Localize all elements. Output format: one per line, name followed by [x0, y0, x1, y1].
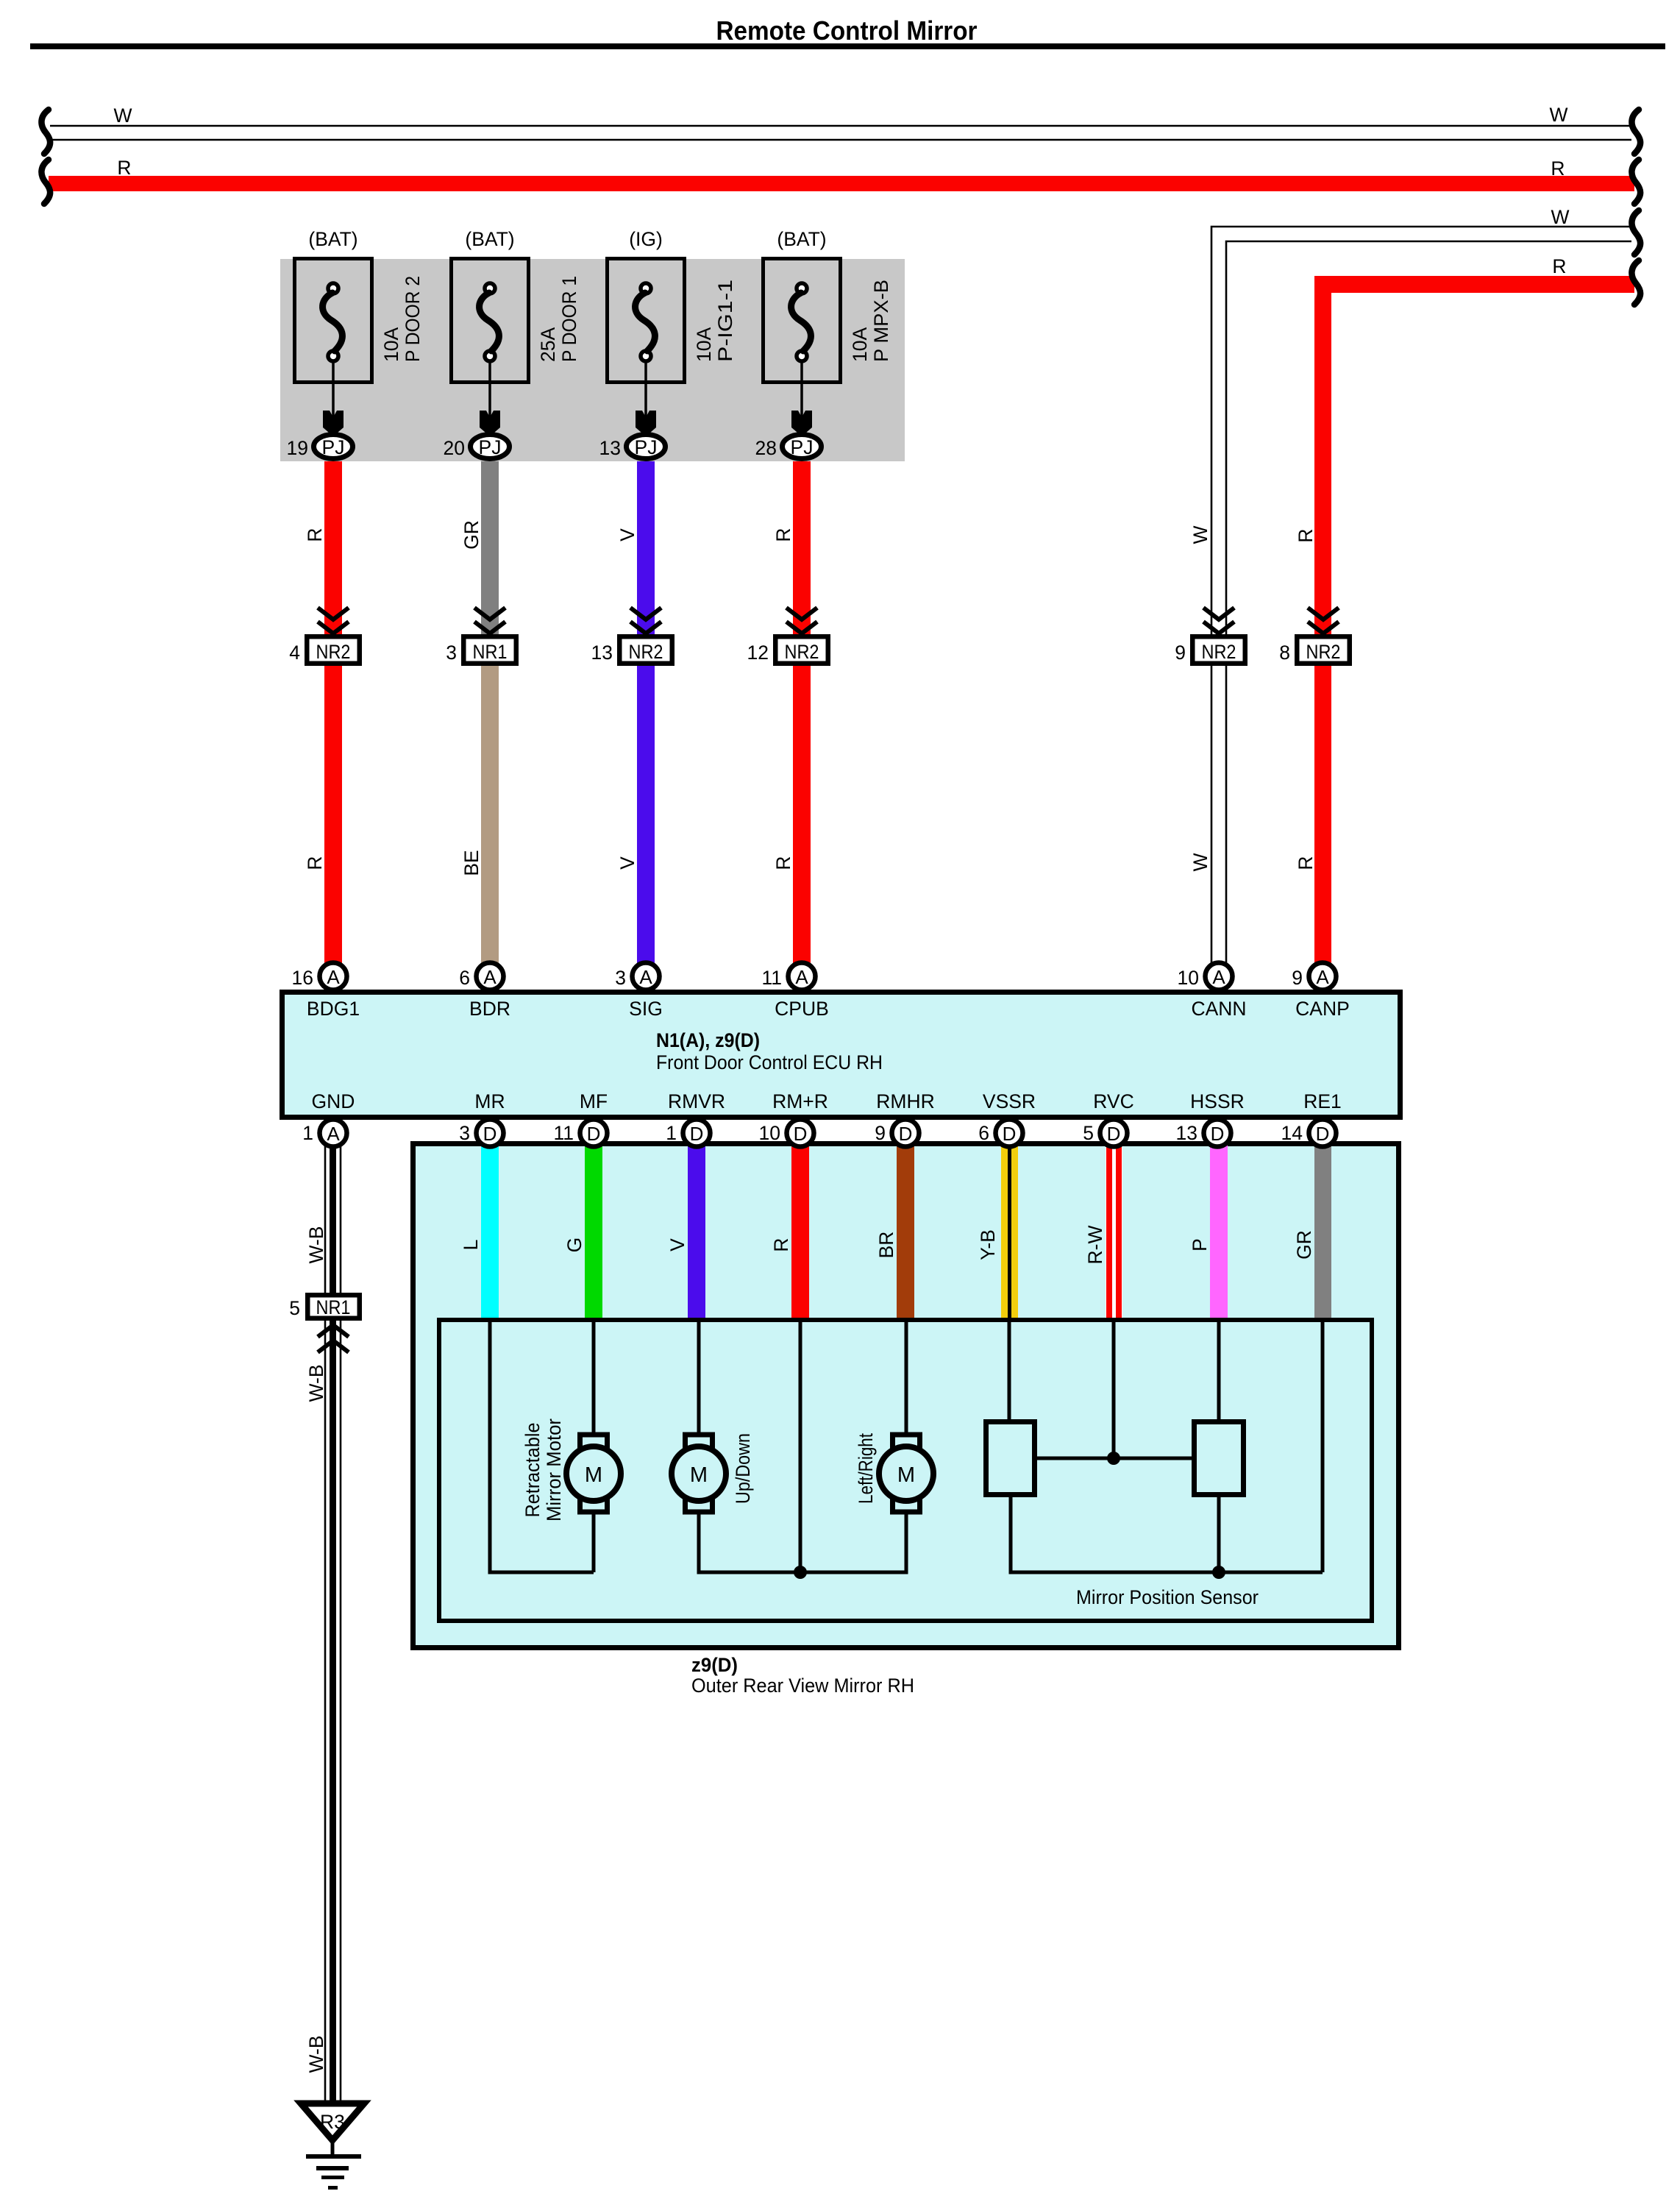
svg-text:NR2: NR2 [1306, 641, 1341, 663]
svg-text:W: W [1189, 853, 1211, 871]
junction dot motor bus [794, 1566, 807, 1579]
wire GR [1314, 1145, 1331, 1320]
ground hatch [306, 2154, 361, 2190]
wire V to updown motor top [697, 1320, 701, 1437]
wire between sensors [1037, 1457, 1192, 1460]
wire L [481, 1145, 499, 1320]
svg-text:10A: 10A [849, 327, 871, 362]
chevron arrow into NR1 5 [318, 1325, 349, 1352]
svg-text:P DOOR 1: P DOOR 1 [558, 276, 580, 362]
svg-text:10A: 10A [380, 327, 402, 362]
svg-text:5: 5 [1083, 1122, 1094, 1144]
svg-text:NR2: NR2 [1202, 641, 1236, 663]
svg-text:W: W [113, 104, 132, 127]
svg-text:14: 14 [1281, 1122, 1303, 1144]
wire Y-B to sensor1 [1008, 1320, 1011, 1419]
wire R to CPUB [793, 661, 811, 965]
svg-text:W: W [1549, 104, 1567, 126]
svg-text:6: 6 [459, 967, 470, 989]
svg-text:D: D [1003, 1123, 1017, 1145]
svg-text:3: 3 [459, 1122, 470, 1144]
wire W-B from GND [325, 1137, 341, 1293]
svg-text:1: 1 [302, 1122, 313, 1144]
svg-text:8: 8 [1279, 642, 1290, 664]
pin 11 (D) [553, 1120, 607, 1147]
wire R [791, 1145, 809, 1320]
svg-text:3: 3 [615, 967, 626, 989]
svg-text:W-B: W-B [305, 2035, 327, 2073]
svg-text:N1(A), z9(D): N1(A), z9(D) [656, 1029, 760, 1051]
svg-text:RMHR: RMHR [876, 1090, 935, 1112]
svg-text:BE: BE [460, 850, 483, 876]
svg-text:9: 9 [875, 1122, 886, 1144]
connector NR2 pin 9 [1175, 636, 1245, 664]
svg-text:D: D [899, 1123, 913, 1145]
brace left W bus [41, 110, 50, 154]
junction dot sensor center [1107, 1452, 1120, 1465]
svg-text:R: R [1551, 157, 1565, 180]
fuse P DOOR 1 [452, 228, 581, 383]
svg-text:NR2: NR2 [785, 641, 819, 663]
svg-text:Outer Rear View Mirror RH: Outer Rear View Mirror RH [691, 1675, 914, 1697]
arrow from fuse P MPX-B to PJ [791, 361, 812, 436]
connector PJ pin 20 [444, 435, 510, 460]
wire sensor bottom bus [1011, 1497, 1323, 1572]
pin 1 (A) [302, 1120, 346, 1147]
chevron arrow into NR1 3 [474, 608, 505, 633]
svg-text:G: G [563, 1238, 585, 1253]
wire BR to leftright motor top [905, 1320, 908, 1437]
svg-text:R: R [304, 856, 326, 870]
svg-text:GR: GR [1293, 1230, 1315, 1260]
pin 1 (D) [666, 1120, 710, 1147]
wire V from PJ13 [637, 461, 655, 637]
svg-text:R: R [772, 528, 794, 542]
leftright motor M3 [879, 1435, 933, 1512]
wire R from PJ28 [793, 461, 811, 637]
wire V [688, 1145, 705, 1320]
svg-text:M: M [690, 1463, 708, 1487]
wire updown motor bottom bus [699, 1510, 906, 1572]
svg-text:R: R [1295, 856, 1317, 870]
svg-text:D: D [1316, 1123, 1330, 1145]
svg-text:GND: GND [312, 1090, 355, 1112]
sensor element 1 [986, 1422, 1035, 1495]
svg-text:Remote Control Mirror: Remote Control Mirror [716, 15, 978, 46]
svg-text:D: D [483, 1123, 497, 1145]
pin 6 (D) [978, 1120, 1022, 1147]
svg-text:W-B: W-B [305, 1226, 327, 1263]
connector PJ pin 19 [287, 435, 353, 460]
svg-text:A: A [327, 1123, 340, 1145]
wire BR [897, 1145, 914, 1320]
connector NR2 pin 13 [591, 636, 672, 664]
connector NR2 pin 4 [289, 636, 360, 664]
svg-text:1: 1 [666, 1122, 677, 1144]
svg-text:Mirror Motor: Mirror Motor [543, 1418, 565, 1522]
svg-text:9: 9 [1175, 642, 1186, 664]
arrow from fuse P DOOR 1 to PJ [480, 361, 500, 436]
mirror internal box [439, 1320, 1372, 1621]
arrow from fuse P-IG1-1 to PJ [636, 361, 656, 436]
connector NR1 pin 3 [446, 636, 516, 664]
svg-text:RMVR: RMVR [668, 1090, 725, 1112]
sensor element 2 [1195, 1422, 1244, 1495]
svg-text:HSSR: HSSR [1190, 1090, 1245, 1112]
fuse P MPX-B [764, 228, 893, 383]
svg-text:CPUB: CPUB [775, 998, 829, 1020]
pin 10 (D) [759, 1120, 814, 1147]
pin 10 (A) [1178, 963, 1233, 990]
svg-text:BDR: BDR [469, 998, 510, 1020]
svg-text:20: 20 [444, 437, 465, 459]
svg-text:V: V [666, 1238, 688, 1251]
chevron arrow into NR2 4 [318, 608, 349, 633]
svg-text:R: R [1295, 528, 1317, 542]
svg-text:28: 28 [755, 437, 777, 459]
svg-text:W: W [1551, 206, 1569, 228]
chevron arrow into NR2 13 [630, 608, 661, 633]
svg-text:RE1: RE1 [1303, 1090, 1342, 1112]
svg-text:Y-B: Y-B [977, 1229, 999, 1260]
svg-text:BR: BR [875, 1232, 897, 1259]
wire GR from PJ20 [481, 461, 499, 637]
svg-text:NR2: NR2 [629, 641, 663, 663]
svg-text:W-B: W-B [305, 1364, 327, 1402]
wire R to CANP [1314, 276, 1634, 293]
svg-text:PJ: PJ [322, 436, 345, 458]
pin 5 (D) [1083, 1120, 1127, 1147]
svg-text:9: 9 [1292, 967, 1303, 989]
arrow from fuse P DOOR 2 to PJ [323, 361, 344, 436]
svg-text:M: M [585, 1463, 602, 1487]
svg-text:12: 12 [747, 642, 769, 664]
svg-text:4: 4 [289, 642, 300, 664]
wire P [1210, 1145, 1228, 1320]
wire P to sensor2 [1217, 1320, 1221, 1419]
svg-text:D: D [587, 1123, 601, 1145]
svg-text:VSSR: VSSR [983, 1090, 1036, 1112]
updown motor M2 [672, 1435, 726, 1512]
wire V to SIG [637, 661, 655, 965]
svg-text:11: 11 [761, 967, 782, 989]
connector PJ pin 28 [755, 435, 822, 460]
svg-text:Mirror Position Sensor: Mirror Position Sensor [1076, 1586, 1259, 1608]
ECU N1(A) z9(D) Front Door Control ECU RH [282, 993, 1400, 1118]
ground stem [331, 2140, 335, 2155]
svg-text:Front Door Control ECU RH: Front Door Control ECU RH [656, 1051, 883, 1073]
connector NR1 pin 5 [289, 1295, 360, 1319]
svg-text:A: A [327, 966, 340, 988]
svg-text:6: 6 [978, 1122, 989, 1144]
wire R to motor bus [799, 1320, 802, 1572]
svg-text:(IG): (IG) [629, 228, 663, 250]
retractable mirror motor M1 [566, 1435, 621, 1512]
svg-text:PJ: PJ [479, 436, 502, 458]
svg-text:Left/Right: Left/Right [855, 1432, 877, 1504]
svg-text:(BAT): (BAT) [777, 228, 826, 250]
brace right R2 [1631, 260, 1640, 305]
wire W bus top [50, 126, 1631, 140]
svg-text:L: L [460, 1240, 482, 1251]
wire Y-B [1001, 1145, 1018, 1320]
wire BE to BDR [481, 661, 499, 965]
svg-text:A: A [639, 966, 652, 988]
mirror z9(D) Outer Rear View Mirror RH box [413, 1144, 1399, 1648]
svg-text:CANP: CANP [1295, 998, 1350, 1020]
svg-text:RVC: RVC [1093, 1090, 1133, 1112]
svg-text:A: A [1212, 966, 1225, 988]
brace left R bus [41, 160, 50, 204]
svg-text:M: M [897, 1463, 915, 1487]
pin 3 (A) [615, 963, 659, 990]
title rule [30, 43, 1665, 49]
wire R bus top [49, 176, 1634, 191]
wire G to retract motor top [592, 1320, 596, 1437]
wire W-B to ground [325, 1318, 341, 2102]
pin 3 (D) [459, 1120, 503, 1147]
svg-text:D: D [690, 1123, 704, 1145]
svg-text:5: 5 [289, 1297, 300, 1319]
pin 9 (A) [1292, 963, 1336, 990]
svg-text:R3: R3 [320, 2111, 345, 2133]
svg-text:V: V [616, 528, 638, 542]
wire R to BDG1 [324, 661, 342, 965]
fuse P-IG1-1 [608, 228, 737, 383]
svg-text:MF: MF [580, 1090, 608, 1112]
svg-text:V: V [616, 856, 638, 870]
svg-text:25A: 25A [537, 327, 559, 362]
svg-text:RM+R: RM+R [772, 1090, 828, 1112]
svg-text:PJ: PJ [635, 436, 658, 458]
chevron arrow into NR2 9 [1203, 608, 1234, 633]
connector NR2 pin 8 [1279, 636, 1350, 664]
svg-text:R: R [770, 1238, 792, 1251]
svg-text:13: 13 [1176, 1122, 1197, 1144]
svg-text:A: A [1316, 966, 1329, 988]
svg-text:R: R [1552, 255, 1566, 277]
pin 13 (D) [1176, 1120, 1231, 1147]
svg-text:10: 10 [759, 1122, 780, 1144]
svg-text:Retractable: Retractable [522, 1423, 544, 1518]
svg-text:P MPX-B: P MPX-B [870, 280, 892, 362]
junction dot sensor bus [1212, 1566, 1225, 1579]
svg-text:R: R [117, 157, 131, 179]
svg-text:z9(D): z9(D) [691, 1654, 738, 1676]
svg-text:D: D [1107, 1123, 1121, 1145]
pin 9 (D) [875, 1120, 919, 1147]
pin 11 (A) [761, 963, 815, 990]
svg-text:P: P [1189, 1238, 1211, 1251]
connector NR2 pin 12 [747, 636, 828, 664]
pin 16 (A) [292, 963, 347, 990]
wire sensor2 bottom [1217, 1497, 1221, 1572]
svg-text:MR: MR [474, 1090, 505, 1112]
wire R from PJ19 [324, 461, 342, 637]
svg-text:W: W [1189, 525, 1211, 544]
junction block PJ [280, 259, 905, 461]
svg-text:A: A [795, 966, 808, 988]
ground R3 [301, 2103, 364, 2140]
pin 6 (A) [459, 963, 503, 990]
svg-text:13: 13 [591, 642, 613, 664]
svg-text:NR2: NR2 [316, 641, 351, 663]
chevron arrow into NR2 12 [786, 608, 817, 633]
svg-text:D: D [794, 1123, 808, 1145]
svg-text:NR1: NR1 [473, 641, 508, 663]
wire R-W to sensor center [1112, 1320, 1116, 1458]
svg-text:PJ: PJ [791, 436, 814, 458]
svg-text:16: 16 [292, 967, 313, 989]
svg-text:R: R [304, 528, 326, 542]
svg-text:Up/Down: Up/Down [732, 1433, 754, 1504]
wire L to retract motor minus [490, 1320, 594, 1572]
svg-text:R: R [772, 856, 794, 870]
wire GR return [1321, 1320, 1325, 1572]
svg-text:19: 19 [287, 437, 308, 459]
svg-text:P DOOR 2: P DOOR 2 [402, 276, 424, 362]
svg-text:GR: GR [460, 520, 483, 550]
svg-text:CANN: CANN [1191, 998, 1246, 1020]
wire retract motor bottom [592, 1510, 596, 1572]
fuse P DOOR 2 [295, 228, 424, 383]
wire W to CANN [1211, 227, 1631, 964]
brace right W bus [1631, 110, 1640, 154]
svg-text:P-IG1-1: P-IG1-1 [714, 280, 736, 362]
svg-text:R-W: R-W [1084, 1226, 1106, 1265]
svg-text:(BAT): (BAT) [308, 228, 357, 250]
svg-text:(BAT): (BAT) [465, 228, 514, 250]
chevron arrow into NR2 8 [1308, 608, 1339, 633]
svg-text:SIG: SIG [629, 998, 663, 1020]
svg-text:10: 10 [1178, 967, 1199, 989]
wire R-W [1106, 1145, 1122, 1320]
svg-text:D: D [1211, 1123, 1225, 1145]
pin 14 (D) [1281, 1120, 1336, 1147]
svg-text:BDG1: BDG1 [307, 998, 360, 1020]
wire G [585, 1145, 602, 1320]
connector PJ pin 13 [599, 435, 666, 460]
svg-text:13: 13 [599, 437, 621, 459]
svg-text:3: 3 [446, 642, 457, 664]
brace right W2 [1631, 210, 1640, 255]
svg-text:10A: 10A [693, 327, 715, 362]
svg-text:A: A [483, 966, 496, 988]
brace right R bus [1631, 160, 1640, 204]
svg-text:11: 11 [553, 1122, 574, 1144]
svg-text:NR1: NR1 [316, 1296, 351, 1318]
